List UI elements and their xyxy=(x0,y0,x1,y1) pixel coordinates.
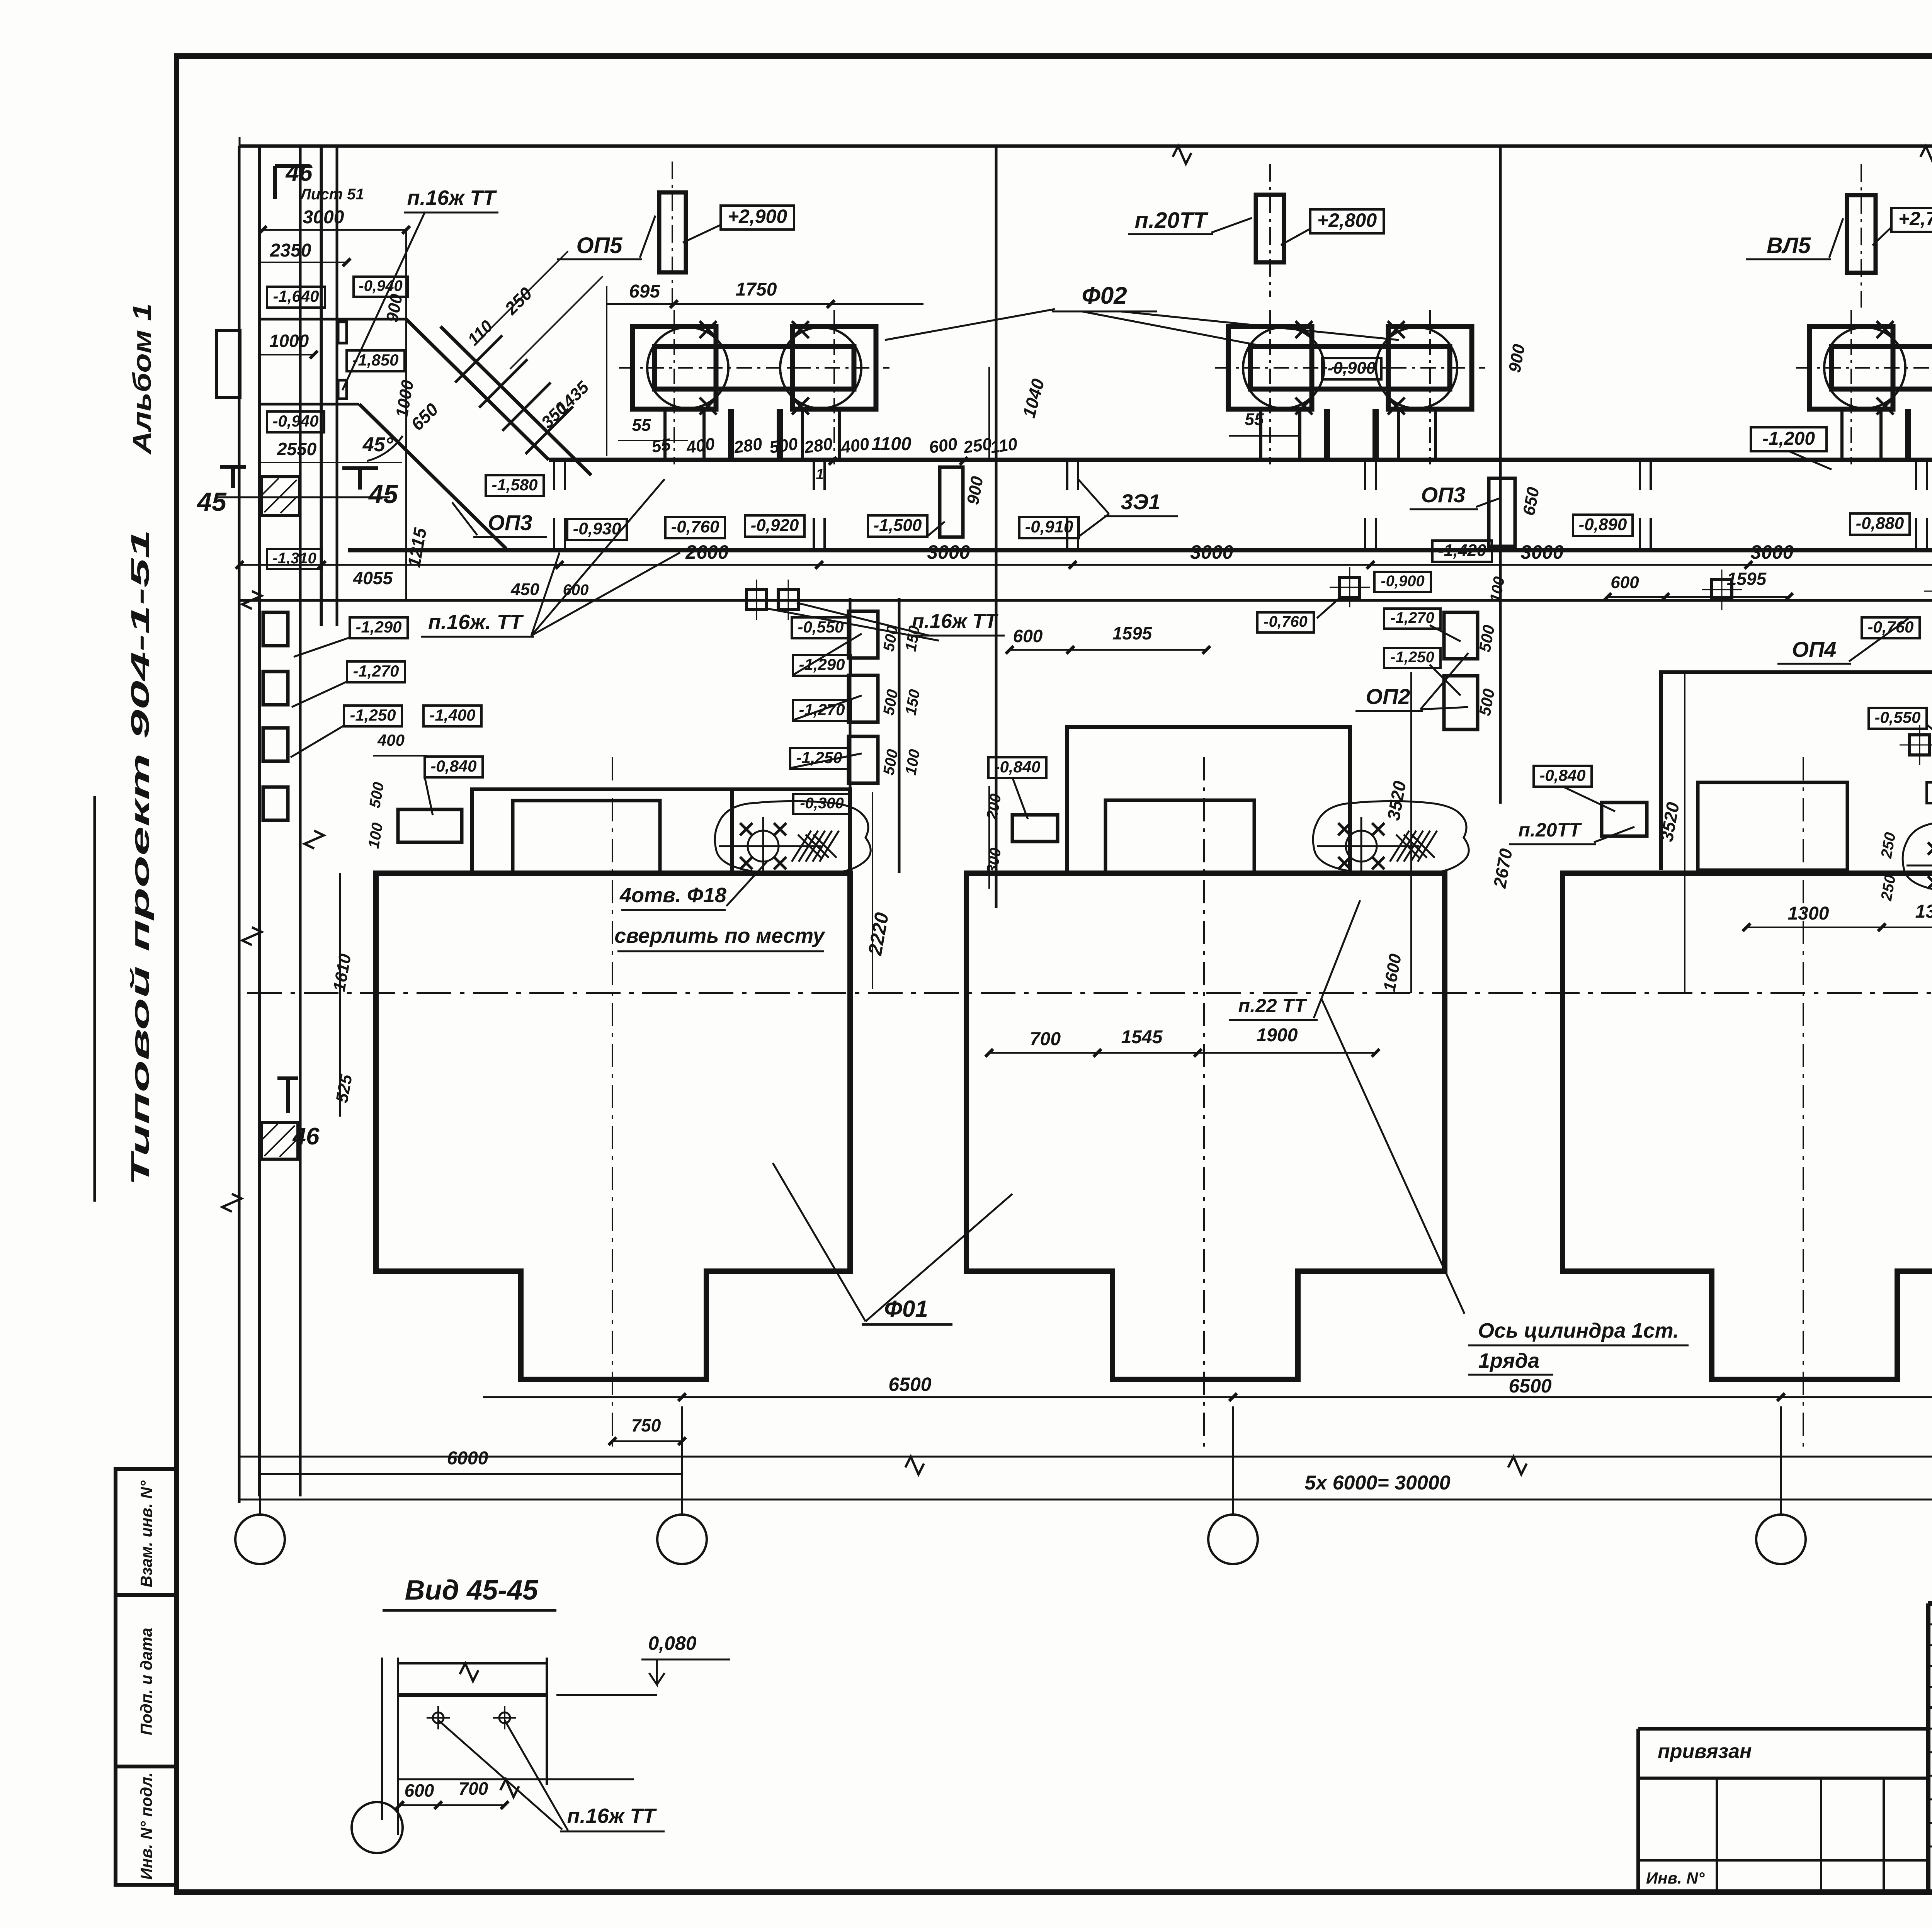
svg-text:450: 450 xyxy=(510,580,539,599)
svg-text:600: 600 xyxy=(405,1780,434,1800)
svg-text:55: 55 xyxy=(1245,410,1264,429)
long bottom line with breaks xyxy=(240,1456,1932,1458)
svg-text:-0,760: -0,760 xyxy=(1264,613,1307,630)
section mark 45-45 line xyxy=(216,496,390,498)
svg-text:1ряда: 1ряда xyxy=(1478,1349,1539,1372)
45 degree arc xyxy=(367,436,403,461)
elevation label +2,900 xyxy=(721,206,794,230)
svg-text:700: 700 xyxy=(459,1778,488,1799)
elevation label -1,250 xyxy=(790,748,848,769)
svg-text:4055: 4055 xyxy=(353,568,393,588)
svg-text:400: 400 xyxy=(685,434,716,457)
elevation label -1,580 xyxy=(486,475,544,496)
svg-text:-0,920: -0,920 xyxy=(751,516,799,535)
footing Ф02-1 centrelines xyxy=(619,367,889,369)
svg-text:ОП3: ОП3 xyxy=(1421,483,1466,507)
unit 1 left small footing xyxy=(398,809,462,842)
footing Ф02-1 pads xyxy=(633,326,716,409)
elevation label -0,550 xyxy=(1869,708,1927,729)
footing Ф02-2 bar xyxy=(1250,347,1450,389)
svg-text:1100: 1100 xyxy=(871,434,912,454)
svg-text:6500: 6500 xyxy=(888,1374,931,1395)
elevation label -0,840 xyxy=(1534,766,1592,787)
svg-text:Ось цилиндра 1ст.: Ось цилиндра 1ст. xyxy=(1478,1319,1679,1342)
30000 chain line xyxy=(240,1499,1932,1501)
anchor square u2r xyxy=(1340,577,1360,597)
svg-text:-1,420: -1,420 xyxy=(1438,541,1486,560)
lower-left grid circle xyxy=(352,1802,403,1853)
svg-text:-0,760: -0,760 xyxy=(1867,618,1913,636)
unit 3 left footing xyxy=(1602,802,1647,836)
left stamp boxes column xyxy=(116,1469,177,1885)
break marks on long verticals xyxy=(242,591,262,609)
svg-text:-1,640: -1,640 xyxy=(273,287,319,305)
svg-text:п.16ж ТТ: п.16ж ТТ xyxy=(407,186,497,209)
unit 1 cap outer xyxy=(472,789,850,873)
svg-text:45: 45 xyxy=(196,487,227,517)
svg-text:280: 280 xyxy=(803,434,834,457)
svg-text:55: 55 xyxy=(650,435,672,456)
footing Ф02-3 centrelines xyxy=(1796,367,1932,369)
sig table rows xyxy=(1928,1706,1932,1709)
band pilaster at 3547 xyxy=(1364,462,1366,490)
svg-text:6500: 6500 xyxy=(1509,1375,1551,1397)
elevation label -1,250 xyxy=(344,706,402,726)
svg-text:ОП4: ОП4 xyxy=(1792,637,1837,661)
foundation Ф01 unit 1 body xyxy=(376,873,850,1379)
svg-text:ОП3: ОП3 xyxy=(488,510,532,535)
elevation label -1,290 xyxy=(793,655,851,676)
ramp dim extension lines xyxy=(479,251,603,369)
band pilaster at 1448 xyxy=(553,462,555,490)
svg-text:-0,940: -0,940 xyxy=(272,412,318,430)
unit 3 centreline xyxy=(1803,757,1804,1449)
signature row Рук. гр. xyxy=(1928,1799,1932,1800)
anchor squares pair u3b xyxy=(1910,735,1930,755)
elevation label -0,760 xyxy=(1862,617,1920,638)
elevation label -1,400 xyxy=(423,706,481,726)
elevation label -1,850 xyxy=(347,350,405,371)
svg-text:сверлить по месту: сверлить по месту xyxy=(614,924,826,947)
unit 2 platform xyxy=(1067,727,1350,873)
svg-text:п.16ж. ТТ: п.16ж. ТТ xyxy=(428,610,524,634)
привязан annex xyxy=(1638,1727,1928,1731)
footing Ф02-2 centrelines xyxy=(1215,367,1485,369)
signature row Гл. спец. xyxy=(1928,1775,1932,1777)
svg-text:1750: 1750 xyxy=(736,279,777,300)
svg-text:280: 280 xyxy=(732,434,764,457)
footing Ф02-3 bar xyxy=(1832,347,1932,389)
svg-text:1300: 1300 xyxy=(1788,903,1829,924)
svg-text:600: 600 xyxy=(928,434,959,457)
scan spine artifact xyxy=(94,796,96,1202)
svg-text:3000: 3000 xyxy=(927,541,970,563)
svg-text:46: 46 xyxy=(292,1123,320,1150)
svg-text:-0,300: -0,300 xyxy=(800,795,844,812)
svg-text:-1,580: -1,580 xyxy=(492,476,537,494)
pedestal ОП5 xyxy=(659,192,686,272)
vertical dim line left xyxy=(405,230,407,599)
elevation label -0,760 xyxy=(665,517,725,538)
svg-text:400: 400 xyxy=(377,731,405,749)
svg-text:-0,840: -0,840 xyxy=(430,757,476,775)
diagonal ramp lines xyxy=(359,319,591,549)
svg-text:привязан: привязан xyxy=(1658,1740,1752,1763)
unit 2 connecting walls xyxy=(849,598,852,873)
svg-text:-1,310: -1,310 xyxy=(272,550,316,567)
svg-text:1595: 1595 xyxy=(1112,623,1153,643)
svg-text:-1,250: -1,250 xyxy=(350,706,396,724)
svg-text:-0,550: -0,550 xyxy=(798,618,844,636)
svg-text:-0,840: -0,840 xyxy=(994,758,1040,776)
footing Ф02-1 anchor circles xyxy=(647,327,728,408)
signature row Н. контр. xyxy=(1928,1822,1932,1824)
svg-text:600: 600 xyxy=(1013,626,1043,646)
pedestal п.20ТТ xyxy=(1256,195,1284,262)
grid circle at 4609 xyxy=(1756,1515,1806,1564)
signature row Ст. инж. xyxy=(1928,1846,1932,1848)
wall band bottom line xyxy=(348,548,1932,553)
svg-text:0,080: 0,080 xyxy=(648,1632,696,1654)
svg-text:1300: 1300 xyxy=(1915,901,1932,922)
elevation label -0,940 xyxy=(354,277,408,297)
svg-text:-0,760: -0,760 xyxy=(671,517,719,536)
elevation label -0,840 xyxy=(425,757,483,777)
elevation label -0,880 xyxy=(1850,513,1910,535)
svg-text:-0,900: -0,900 xyxy=(1381,573,1424,590)
signature row Нач. отд. xyxy=(1928,1751,1932,1753)
band niche rect 1 xyxy=(940,467,963,537)
svg-text:Подп. и дата: Подп. и дата xyxy=(137,1628,155,1735)
footing Ф02-1 bar xyxy=(655,347,854,389)
svg-text:2550: 2550 xyxy=(277,439,317,459)
grid circle at 1765 xyxy=(657,1515,707,1564)
svg-text:250: 250 xyxy=(962,434,993,457)
svg-text:45: 45 xyxy=(368,479,398,509)
elevation label +2,800 xyxy=(1310,209,1384,233)
band pilaster at 2776 xyxy=(1066,462,1068,490)
elevation label -0,890 xyxy=(1573,515,1633,536)
svg-text:3000: 3000 xyxy=(1190,541,1233,563)
elevation label -0,760 xyxy=(1257,612,1314,632)
elevation label -1,290 xyxy=(350,617,408,638)
svg-text:-1,500: -1,500 xyxy=(874,516,922,535)
svg-text:1545: 1545 xyxy=(1121,1027,1163,1047)
wall axis vertical A xyxy=(320,146,323,626)
svg-text:700: 700 xyxy=(1030,1029,1061,1049)
footing Ф02-1 legs xyxy=(663,409,667,460)
svg-text:+2,900: +2,900 xyxy=(728,206,787,227)
elevation label -0,930 xyxy=(567,519,627,540)
svg-text:-1,270: -1,270 xyxy=(1390,609,1434,626)
horizontal centreline axis of cylinders xyxy=(247,992,1932,994)
elevation label -0,840 xyxy=(988,757,1046,778)
svg-text:Взам. инв. N°: Взам. инв. N° xyxy=(137,1480,155,1588)
view 45-45 drawing xyxy=(381,1658,383,1820)
svg-text:Инв. N° подл.: Инв. N° подл. xyxy=(137,1772,155,1880)
unit 2 centreline xyxy=(1203,757,1205,1449)
svg-text:600: 600 xyxy=(563,581,589,598)
svg-text:3000: 3000 xyxy=(1750,541,1793,563)
svg-text:-0,550: -0,550 xyxy=(1874,708,1920,726)
elevation label -1,500 xyxy=(868,515,927,537)
elevation label +2,700 xyxy=(1891,208,1932,232)
footing Ф02-3 pads xyxy=(1810,326,1893,409)
svg-text:-0,840: -0,840 xyxy=(1539,766,1585,784)
elevation label -0,900 xyxy=(1374,572,1431,592)
band niche rect ОП3 xyxy=(1489,478,1515,546)
svg-text:3000: 3000 xyxy=(303,207,344,228)
svg-text:Вид 45-45: Вид 45-45 xyxy=(405,1575,539,1606)
svg-text:1: 1 xyxy=(816,466,824,483)
svg-text:-1,250: -1,250 xyxy=(796,748,842,767)
elevation label -1,420 xyxy=(1432,541,1492,562)
chain secondary line xyxy=(240,599,1932,602)
footing Ф02-2 anchor circles xyxy=(1243,327,1324,408)
svg-text:-1,200: -1,200 xyxy=(1762,428,1815,449)
svg-text:750: 750 xyxy=(631,1415,661,1435)
leader -1,500 to niche xyxy=(927,522,945,536)
svg-text:5х 6000= 30000: 5х 6000= 30000 xyxy=(1304,1472,1450,1494)
elevation label -1,270 xyxy=(1384,609,1440,629)
svg-text:-0,890: -0,890 xyxy=(1579,515,1627,534)
unit 2 cap xyxy=(1105,800,1254,873)
elevation label -0,920 xyxy=(745,515,804,537)
wall band top line xyxy=(549,458,1932,462)
grid circle at 3191 xyxy=(1208,1515,1258,1564)
elevation label -1,250 xyxy=(1384,648,1440,668)
unit 1 centreline xyxy=(612,757,613,1449)
ledge line 1 xyxy=(260,318,406,321)
signature row ГИП xyxy=(1928,1728,1932,1730)
elevation label -0,940 xyxy=(267,411,324,432)
svg-text:6000: 6000 xyxy=(447,1448,488,1469)
unit 3 cap xyxy=(1698,782,1847,870)
small squares column left wall xyxy=(263,612,288,646)
svg-text:4отв. Ф18: 4отв. Ф18 xyxy=(619,884,726,907)
grid circle at 673 xyxy=(235,1515,285,1564)
svg-text:п.16ж ТТ: п.16ж ТТ xyxy=(567,1804,657,1828)
svg-text:55: 55 xyxy=(632,416,651,435)
unit 3 upper platform xyxy=(1661,672,1932,873)
unit 2 small rect column xyxy=(849,611,878,658)
svg-text:п.22 ТТ: п.22 ТТ xyxy=(1238,995,1307,1017)
ledge line 2 xyxy=(260,403,359,406)
pedestal ВЛ5 xyxy=(1847,195,1876,273)
left edge rect xyxy=(216,331,240,398)
anchor squares pair u1 xyxy=(747,590,767,610)
footing Ф02-2 pads xyxy=(1228,326,1312,409)
bolts in view xyxy=(433,1712,444,1723)
wall pilaster rects xyxy=(338,322,347,343)
anchor square single u3 xyxy=(1712,580,1732,600)
wall axis vertical B xyxy=(995,146,998,908)
footing Ф02-3 anchor circles xyxy=(1824,327,1905,408)
svg-text:400: 400 xyxy=(839,434,871,457)
svg-text:-0,910: -0,910 xyxy=(1025,517,1073,536)
band pilaster at 2120 xyxy=(813,462,815,490)
wall axis vertical C xyxy=(1499,146,1502,804)
unit 2 blob xyxy=(1313,801,1469,874)
band pilaster at 4258 xyxy=(1639,462,1641,490)
svg-text:-1,250: -1,250 xyxy=(1390,649,1434,666)
svg-text:+2,800: +2,800 xyxy=(1317,209,1377,231)
dim 1040 vertical xyxy=(988,367,990,460)
foundation Ф01 unit 3 body xyxy=(1563,873,1932,1379)
elevation label -0,900 xyxy=(1927,782,1932,803)
elevation label -0,550 xyxy=(792,617,850,638)
svg-text:Инв. N°: Инв. N° xyxy=(1646,1869,1705,1887)
top line left vertical xyxy=(239,137,241,1503)
6500 chain line xyxy=(483,1396,1932,1398)
svg-text:-0,940: -0,940 xyxy=(359,277,402,294)
chain dim line row1 xyxy=(240,564,1932,566)
svg-text:ОП2: ОП2 xyxy=(1366,684,1410,709)
svg-text:1900: 1900 xyxy=(1257,1025,1298,1046)
svg-text:п.20ТТ: п.20ТТ xyxy=(1518,819,1582,841)
elevation label -1,270 xyxy=(347,661,405,682)
band pilaster at 4973 xyxy=(1915,462,1917,490)
unit 1 cap inner xyxy=(513,801,660,873)
svg-text:-0,930: -0,930 xyxy=(573,519,621,538)
svg-text:-1,290: -1,290 xyxy=(355,618,401,636)
elevation label -0,910 xyxy=(1019,517,1079,538)
svg-text:46: 46 xyxy=(285,160,313,186)
svg-text:695: 695 xyxy=(629,281,660,302)
title block outline xyxy=(1928,1603,1932,1892)
footing Ф02-3 legs xyxy=(1840,409,1844,460)
elevation label -1,200 xyxy=(1751,427,1827,451)
svg-text:2350: 2350 xyxy=(270,240,311,261)
svg-text:п.16ж ТТ: п.16ж ТТ xyxy=(912,610,999,632)
svg-text:1000: 1000 xyxy=(269,331,309,351)
svg-text:45°: 45° xyxy=(362,434,394,456)
svg-text:п.20ТТ: п.20ТТ xyxy=(1135,208,1209,233)
svg-text:ВЛ5: ВЛ5 xyxy=(1767,233,1811,258)
svg-text:Ф02: Ф02 xyxy=(1082,282,1127,309)
svg-text:Альбом 1: Альбом 1 xyxy=(128,303,156,455)
svg-text:-0,900: -0,900 xyxy=(1328,359,1376,377)
svg-text:2600: 2600 xyxy=(685,541,728,563)
svg-text:+2,700: +2,700 xyxy=(1898,208,1932,230)
elevation label -1,640 xyxy=(267,287,325,308)
svg-text:3000: 3000 xyxy=(1520,541,1563,563)
elevation label -1,270 xyxy=(793,700,851,721)
elevation label -0,300 xyxy=(793,794,850,814)
svg-text:ОП5: ОП5 xyxy=(576,233,622,258)
svg-text:110: 110 xyxy=(989,434,1019,457)
svg-text:Лист 51: Лист 51 xyxy=(299,186,364,203)
unit 3 blob xyxy=(1903,820,1932,894)
left wall strip lines xyxy=(258,146,261,1496)
svg-text:500: 500 xyxy=(768,434,799,457)
svg-text:3Э1: 3Э1 xyxy=(1121,490,1161,514)
elevation label -1,310 xyxy=(267,549,322,569)
svg-text:-0,880: -0,880 xyxy=(1856,514,1904,533)
unit 2 right small col xyxy=(1444,612,1478,659)
svg-text:-1,400: -1,400 xyxy=(429,706,475,724)
building top outline line xyxy=(240,145,1932,148)
hatched anchor squares on left wall xyxy=(261,477,300,515)
foundation Ф01 unit 2 body xyxy=(966,873,1445,1379)
svg-text:-1,270: -1,270 xyxy=(353,662,399,680)
unit 1 blob xyxy=(715,801,871,874)
footing Ф02-2 legs xyxy=(1259,409,1262,460)
svg-text:Типовой проект 904-1-51: Типовой проект 904-1-51 xyxy=(126,529,154,1186)
unit 2 left small footing xyxy=(1012,815,1058,842)
elevation label -0,900 xyxy=(1322,358,1381,379)
svg-text:600: 600 xyxy=(1611,573,1639,592)
